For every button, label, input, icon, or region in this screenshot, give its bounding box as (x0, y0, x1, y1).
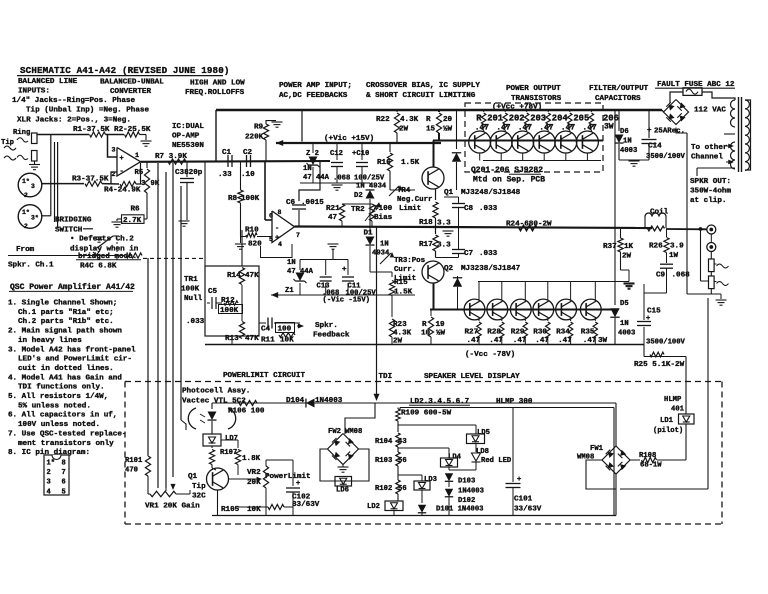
svg-text:.33: .33 (218, 171, 232, 179)
svg-text:ment transistors only: ment transistors only (18, 440, 114, 448)
svg-text:(-Vcc -78V): (-Vcc -78V) (465, 351, 515, 359)
svg-text:4003: 4003 (620, 147, 637, 155)
svg-text:100K: 100K (241, 195, 260, 203)
svg-text:R103: R103 (375, 457, 392, 465)
svg-text:4.3K: 4.3K (393, 330, 412, 338)
svg-text:R102: R102 (375, 485, 392, 493)
svg-text:CONVERTER: CONVERTER (110, 88, 151, 96)
svg-text:1*: 1* (22, 178, 30, 185)
svg-text:R4-24.9K: R4-24.9K (104, 187, 141, 195)
svg-text:(pilot): (pilot) (653, 427, 683, 435)
svg-text:Bias: Bias (374, 214, 393, 222)
svg-text:47: 47 (328, 214, 338, 222)
svg-text:47K: 47K (245, 272, 259, 280)
svg-text:TDI functions only.: TDI functions only. (18, 384, 105, 392)
svg-text:D102: D102 (458, 497, 475, 505)
svg-text:2: 2 (112, 171, 116, 178)
svg-text:Photocell Assy.: Photocell Assy. (182, 388, 250, 396)
svg-text:QSC Power Amplifier A41/42: QSC Power Amplifier A41/42 (10, 283, 135, 292)
svg-text:1K: 1K (624, 243, 634, 251)
svg-text:Q2: Q2 (444, 265, 454, 273)
svg-text:4. Model A41 has Gain and: 4. Model A41 has Gain and (8, 374, 122, 382)
svg-text:R30: R30 (533, 329, 547, 337)
svg-text:Tip (Unbal Inp) =Neg. Phase: Tip (Unbal Inp) =Neg. Phase (26, 106, 149, 114)
svg-text:470: 470 (125, 466, 138, 474)
svg-text:R28: R28 (487, 329, 501, 337)
svg-text:1N: 1N (380, 241, 389, 249)
svg-text:R35: R35 (581, 329, 595, 337)
svg-text:TR1: TR1 (184, 276, 198, 284)
svg-text:3. Model A42 has front-panel: 3. Model A42 has front-panel (8, 346, 136, 354)
svg-text:3: 3 (31, 183, 35, 190)
svg-text:Channel: Channel (691, 154, 723, 162)
svg-text:1.5K: 1.5K (401, 159, 420, 167)
svg-text:2: 2 (24, 223, 28, 230)
svg-text:R13: R13 (225, 335, 239, 343)
svg-text:POWERLIMIT CIRCUIT: POWERLIMIT CIRCUIT (223, 372, 305, 380)
svg-text:LD1: LD1 (660, 417, 674, 425)
svg-text:R25 5.1K-2W: R25 5.1K-2W (634, 361, 685, 369)
svg-text:VR1 20K Gain: VR1 20K Gain (145, 503, 200, 511)
svg-text:at clip.: at clip. (690, 197, 726, 205)
svg-text:R6: R6 (131, 206, 141, 214)
svg-text:C3820p: C3820p (175, 169, 203, 177)
svg-text:Neg.Curr: Neg.Curr (397, 196, 432, 204)
svg-text:C7: C7 (464, 250, 474, 258)
svg-text:Vactec VTL 5C2: Vactec VTL 5C2 (182, 397, 246, 405)
svg-text:C1: C1 (222, 149, 232, 157)
svg-text:Mtd on Sep. PCB: Mtd on Sep. PCB (473, 176, 545, 185)
svg-text:2: 2 (47, 469, 51, 477)
svg-text:R108: R108 (639, 452, 656, 460)
svg-text:R: R (426, 116, 431, 124)
svg-text:3*: 3* (31, 215, 39, 222)
svg-text:1N4003: 1N4003 (315, 397, 343, 405)
svg-text:R22: R22 (376, 116, 390, 124)
svg-text:TRANSISTORS: TRANSISTORS (511, 95, 562, 103)
svg-text:TDI: TDI (379, 373, 393, 381)
svg-text:BALANCED LINE: BALANCED LINE (18, 78, 78, 86)
svg-text:LD7: LD7 (225, 435, 238, 443)
svg-text:D101 1N4003: D101 1N4003 (436, 506, 483, 514)
svg-text:1W: 1W (669, 252, 679, 260)
svg-text:POWER AMP INPUT;: POWER AMP INPUT; (279, 82, 352, 90)
svg-text:Null: Null (184, 295, 203, 303)
svg-text:1N: 1N (303, 165, 312, 173)
svg-text:R26: R26 (649, 243, 663, 251)
svg-text:202: 202 (509, 114, 525, 124)
svg-text:3W: 3W (604, 122, 614, 131)
svg-text:Feedback: Feedback (313, 332, 350, 340)
svg-text:5: 5 (269, 236, 273, 243)
svg-text:201: 201 (487, 114, 503, 124)
svg-text:FW1: FW1 (590, 445, 604, 453)
svg-text:+: + (120, 155, 124, 163)
svg-text:R34: R34 (556, 329, 570, 337)
svg-text:R: R (422, 321, 427, 329)
svg-text:D5: D5 (620, 300, 629, 308)
svg-text:display when in: display when in (70, 245, 139, 253)
svg-text:350W-4ohm: 350W-4ohm (690, 187, 731, 195)
svg-text:C8: C8 (464, 205, 474, 213)
svg-text:OP-AMP: OP-AMP (172, 132, 200, 140)
svg-text:cuit in dotted lines.: cuit in dotted lines. (18, 365, 114, 373)
svg-text:SPEAKER LEVEL DISPLAY: SPEAKER LEVEL DISPLAY (424, 373, 520, 381)
svg-text:CROSSOVER BIAS, IC SUPPLY: CROSSOVER BIAS, IC SUPPLY (366, 82, 480, 90)
svg-text:TR2: TR2 (351, 206, 365, 214)
svg-text:in heavy lines: in heavy lines (18, 337, 82, 345)
svg-text:INPUTS:: INPUTS: (18, 88, 50, 96)
svg-text:47K: 47K (245, 335, 259, 343)
svg-text:7. Use QSC-tested replace-: 7. Use QSC-tested replace- (8, 430, 126, 438)
svg-text:CAPACITORS: CAPACITORS (595, 95, 641, 103)
svg-text:(+Vic +15V): (+Vic +15V) (324, 135, 374, 143)
svg-text:3: 3 (112, 147, 116, 154)
svg-text:R4C 6.8K: R4C 6.8K (80, 262, 117, 270)
svg-text:BRIDGING: BRIDGING (55, 217, 92, 225)
svg-text:1.8K: 1.8K (242, 455, 261, 463)
svg-text:LD2: LD2 (367, 503, 380, 511)
svg-text:6: 6 (269, 213, 273, 220)
svg-text:6. All capacitors in uf,: 6. All capacitors in uf, (8, 412, 117, 420)
svg-text:2W: 2W (399, 125, 409, 133)
svg-text:Ch.2 parts "R1b" etc.: Ch.2 parts "R1b" etc. (18, 318, 114, 326)
svg-text:5% unless noted.: 5% unless noted. (18, 402, 91, 410)
svg-text:SCHEMATIC A41-A42 (REVISED JUN: SCHEMATIC A41-A42 (REVISED JUNE 1980) (20, 65, 230, 76)
svg-text:D103: D103 (458, 478, 475, 486)
svg-text:R15: R15 (394, 279, 408, 287)
svg-text:10K: 10K (280, 337, 294, 345)
svg-text:4003: 4003 (618, 330, 635, 338)
svg-text:LD6: LD6 (336, 487, 349, 495)
svg-text:25ARec.: 25ARec. (654, 128, 685, 136)
svg-text:R8: R8 (228, 195, 238, 203)
svg-text:C4: C4 (261, 326, 271, 334)
svg-text:1/4" Jacks--Ring=Pos. Phase: 1/4" Jacks--Ring=Pos. Phase (12, 97, 135, 105)
svg-text:Q1: Q1 (444, 189, 454, 197)
svg-text:1*: 1* (22, 209, 30, 216)
svg-text:VR2: VR2 (247, 469, 261, 477)
svg-text:Ring: Ring (13, 129, 30, 137)
svg-text:8: 8 (62, 460, 66, 468)
svg-text:Z1: Z1 (285, 287, 294, 295)
svg-text:(-Vic -15V): (-Vic -15V) (323, 297, 370, 305)
svg-text:6: 6 (62, 479, 66, 487)
svg-text:47 44A: 47 44A (303, 174, 330, 182)
svg-text:3.3: 3.3 (437, 242, 451, 250)
svg-text:4: 4 (47, 488, 51, 496)
svg-text:BALANCED-UNBAL: BALANCED-UNBAL (100, 79, 164, 87)
svg-text:8: 8 (278, 209, 282, 216)
svg-text:+: + (342, 266, 347, 274)
svg-text:MJ3238/SJ1847: MJ3238/SJ1847 (461, 265, 521, 273)
svg-text:½W: ½W (436, 330, 446, 338)
svg-text:R11: R11 (261, 337, 275, 345)
svg-text:SWITCH: SWITCH (55, 227, 83, 235)
svg-text:To other: To other (691, 144, 728, 152)
svg-text:C101: C101 (514, 496, 533, 504)
svg-text:.10: .10 (241, 171, 255, 179)
svg-text:33/63V: 33/63V (292, 501, 320, 509)
svg-text:LD8: LD8 (476, 448, 489, 456)
svg-text:AC,DC FEEDBACKS: AC,DC FEEDBACKS (279, 92, 348, 100)
svg-text:R12: R12 (221, 297, 235, 305)
svg-text:5: 5 (62, 488, 66, 496)
svg-text:R23: R23 (393, 321, 407, 329)
svg-text:.068: .068 (333, 175, 350, 183)
svg-text:Spkr.: Spkr. (315, 322, 338, 330)
svg-text:.0015: .0015 (301, 199, 324, 207)
svg-text:WM08: WM08 (345, 428, 362, 436)
svg-text:D1: D1 (364, 230, 374, 238)
svg-text:3500/100V: 3500/100V (646, 153, 686, 161)
svg-text:R9: R9 (254, 124, 264, 132)
svg-text:.033: .033 (479, 205, 498, 213)
svg-text:Red LED: Red LED (481, 457, 512, 465)
svg-text:2. Main signal path shown: 2. Main signal path shown (8, 328, 122, 336)
svg-text:SPKR OUT:: SPKR OUT: (690, 178, 731, 186)
svg-text:1N4003: 1N4003 (458, 487, 484, 495)
svg-text:3.9: 3.9 (670, 243, 684, 251)
svg-text:C6: C6 (286, 199, 296, 207)
svg-text:MJ3248/SJ1848: MJ3248/SJ1848 (461, 189, 521, 197)
svg-text:C9: C9 (656, 272, 666, 280)
svg-text:Ch.1 parts "R1a" etc;: Ch.1 parts "R1a" etc; (18, 309, 114, 317)
svg-text:PowerLimit: PowerLimit (265, 473, 311, 481)
svg-text:XLR Jacks: 2=Pos., 3=Neg.: XLR Jacks: 2=Pos., 3=Neg. (17, 117, 131, 125)
svg-text:220K: 220K (245, 134, 264, 142)
svg-text:4.3K: 4.3K (400, 116, 419, 124)
svg-text:Q1: Q1 (188, 473, 198, 481)
svg-text:NE5530N: NE5530N (172, 142, 204, 150)
svg-text:32C: 32C (192, 493, 206, 501)
svg-text:R27: R27 (465, 329, 479, 337)
svg-text:HLMP: HLMP (664, 396, 682, 404)
svg-text:5. All resistors 1/4W,: 5. All resistors 1/4W, (8, 393, 108, 401)
svg-text:33/63V: 33/63V (514, 505, 542, 513)
svg-text:7: 7 (296, 232, 300, 239)
svg-text:204: 204 (552, 114, 569, 124)
svg-text:-: - (275, 225, 279, 233)
svg-text:1. Single Channel Shown;: 1. Single Channel Shown; (8, 300, 117, 308)
svg-text:.033: .033 (479, 250, 498, 258)
svg-text:1: 1 (135, 152, 139, 159)
svg-text:100V unless noted.: 100V unless noted. (18, 421, 100, 429)
svg-text:15: 15 (426, 125, 436, 133)
svg-text:FILTER/OUTPUT: FILTER/OUTPUT (589, 85, 649, 93)
svg-text:Q201-206 SJ9282: Q201-206 SJ9282 (471, 166, 543, 175)
svg-text:½W: ½W (443, 125, 453, 133)
svg-text:R21: R21 (326, 205, 340, 213)
svg-text:R5: R5 (135, 169, 144, 177)
svg-text:Tip: Tip (192, 483, 206, 491)
svg-text:3: 3 (141, 180, 145, 188)
svg-text:R18: R18 (419, 219, 433, 227)
svg-text:401: 401 (671, 405, 685, 413)
svg-text:Curr.: Curr. (394, 266, 416, 274)
svg-text:D2: D2 (354, 192, 363, 200)
svg-text:R109 600-5W: R109 600-5W (401, 410, 452, 418)
svg-text:R104: R104 (375, 438, 393, 446)
svg-text:POWER OUTPUT: POWER OUTPUT (506, 85, 561, 93)
svg-text:820: 820 (248, 241, 262, 249)
svg-text:R14: R14 (227, 272, 241, 280)
svg-text:7: 7 (62, 469, 66, 477)
svg-text:HIGH AND LOW: HIGH AND LOW (190, 80, 245, 88)
svg-text:1N: 1N (623, 137, 632, 145)
svg-text:2W: 2W (622, 252, 632, 260)
svg-text:& SHORT CIRCUIT LIMITING: & SHORT CIRCUIT LIMITING (366, 92, 476, 100)
svg-text:D104: D104 (286, 397, 305, 405)
svg-text:1N: 1N (287, 259, 296, 267)
svg-text:Limit: Limit (399, 205, 421, 213)
svg-text:R29: R29 (511, 329, 525, 337)
svg-text:HLMP 300: HLMP 300 (496, 398, 533, 406)
svg-text:2: 2 (24, 192, 28, 199)
svg-text:C5: C5 (208, 288, 218, 296)
svg-text:From: From (16, 246, 35, 254)
svg-text:R101: R101 (125, 457, 143, 465)
svg-text:-: - (120, 168, 124, 176)
svg-text:1*: 1* (47, 460, 55, 468)
svg-text:3500/100V: 3500/100V (646, 339, 686, 347)
svg-text:R17: R17 (419, 241, 433, 249)
svg-text:20: 20 (443, 116, 453, 124)
svg-text:+C10: +C10 (352, 150, 369, 158)
svg-text:1N: 1N (620, 320, 629, 328)
svg-text:203: 203 (530, 114, 546, 124)
svg-text:+: + (517, 476, 521, 484)
svg-text:8. IC pin diagram:: 8. IC pin diagram: (8, 449, 90, 457)
svg-text:Spkr. Ch.1: Spkr. Ch.1 (8, 262, 54, 270)
svg-text:R7 3.9K: R7 3.9K (155, 153, 187, 161)
svg-text:100/25V: 100/25V (354, 175, 385, 183)
svg-text:C12: C12 (330, 150, 343, 158)
svg-text:3: 3 (47, 479, 51, 487)
svg-text:205: 205 (573, 114, 589, 124)
svg-text:+: + (296, 480, 300, 488)
svg-text:FW2: FW2 (328, 428, 341, 436)
svg-text:112 VAC: 112 VAC (694, 107, 726, 115)
svg-text:TR3:Pos: TR3:Pos (394, 257, 425, 265)
svg-text:19: 19 (436, 321, 446, 329)
svg-text:100K: 100K (181, 285, 200, 293)
svg-text:R: R (476, 114, 482, 124)
svg-text:LED's and PowerLimit cir-: LED's and PowerLimit cir- (18, 356, 132, 364)
svg-text:FREQ.ROLLOFFS: FREQ.ROLLOFFS (185, 89, 245, 97)
svg-text:+: + (275, 235, 279, 243)
svg-text:.033: .033 (186, 318, 205, 326)
svg-text:IC:DUAL: IC:DUAL (172, 123, 204, 131)
svg-text:R105: R105 (221, 506, 240, 514)
